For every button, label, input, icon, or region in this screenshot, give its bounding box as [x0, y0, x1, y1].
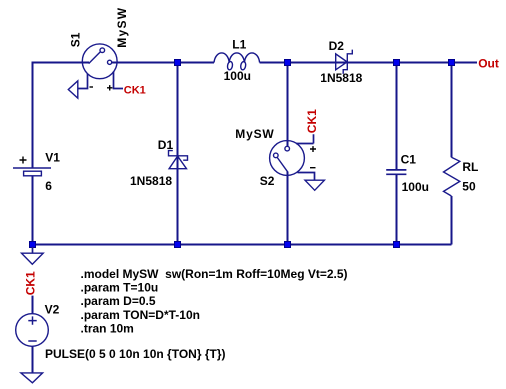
V1 plus mark: [20, 157, 27, 164]
S2 plus pin mark: [310, 146, 316, 152]
svg-text:PULSE(0 5 0 10n 10n {TON} {T}): PULSE(0 5 0 10n 10n {TON} {T}): [45, 347, 226, 361]
switch S2: [270, 134, 315, 180]
svg-text:1N5818: 1N5818: [320, 71, 362, 85]
wire: top rail from S1 right contact to D2 anode: [112, 62, 214, 64]
svg-text:L1: L1: [232, 38, 246, 52]
wire: RL branch top: [451, 63, 453, 158]
svg-text:V1: V1: [45, 151, 60, 165]
wire: V2 minus to ground: [32, 346, 34, 373]
wire: S2 pivot to bottom rail: [287, 172, 289, 245]
junction node bottom rail D1: [175, 242, 181, 248]
svg-text:.param T=10u: .param T=10u: [81, 281, 159, 295]
wire: C1 branch top: [396, 63, 398, 170]
ground at V2 minus: [21, 373, 43, 383]
svg-text:S2: S2: [260, 174, 275, 188]
voltage source V2: [16, 314, 49, 347]
svg-text:MySW: MySW: [115, 7, 129, 48]
svg-text:C1: C1: [401, 152, 417, 166]
capacitor C1: [386, 170, 406, 174]
svg-text:100u: 100u: [402, 180, 429, 194]
junction node RL top: [449, 60, 455, 66]
svg-text:6: 6: [45, 179, 52, 193]
wire: D1 branch: [177, 63, 179, 245]
wire: bottom ground rail: [33, 244, 452, 246]
diode D2: [336, 50, 353, 74]
ground at S1 minus control: [68, 81, 78, 98]
svg-text:CK1: CK1: [124, 85, 146, 97]
junction node D1 top: [175, 60, 181, 66]
wire: C1 bottom to bottom rail: [396, 175, 398, 245]
V2 plus mark: [28, 316, 36, 324]
S1 plus pin mark: [107, 85, 112, 90]
resistor RL: [444, 157, 460, 196]
wire: CK1 label to V2 plus: [32, 296, 34, 314]
switch S1: [78, 44, 123, 89]
svg-text:S1: S1: [69, 32, 83, 47]
svg-text:CK1: CK1: [305, 109, 319, 133]
junction node bottom rail V1: [30, 242, 36, 248]
ground at S2 minus control: [305, 180, 324, 190]
S2 minus pin mark: [310, 167, 316, 169]
svg-text:.model MySW sw(Ron=1m Roff=10: .model MySW sw(Ron=1m Roff=10Meg Vt=2.5): [81, 267, 348, 281]
svg-text:.tran 10m: .tran 10m: [81, 321, 134, 335]
svg-text:.param TON=D*T-10n: .param TON=D*T-10n: [81, 308, 200, 322]
V2 minus mark: [28, 340, 36, 342]
junction node C1 top: [394, 60, 400, 66]
svg-text:50: 50: [462, 180, 476, 194]
S1 minus pin mark: [90, 86, 94, 88]
svg-text:D1: D1: [158, 138, 174, 152]
wire: left rail top + top rail to S1 pivot: [33, 63, 90, 168]
svg-text:MySW: MySW: [235, 127, 274, 141]
diode D1: [169, 151, 188, 169]
battery V1: [13, 168, 51, 176]
ground at bottom rail: [22, 247, 44, 264]
junction node bottom rail S2: [285, 242, 291, 248]
svg-text:.param D=0.5: .param D=0.5: [81, 294, 156, 308]
svg-text:Out: Out: [478, 57, 499, 71]
junction node bottom rail C1: [394, 242, 400, 248]
svg-text:D2: D2: [329, 39, 345, 53]
svg-text:RL: RL: [462, 160, 478, 174]
svg-text:100u: 100u: [224, 69, 251, 83]
wire: top rail L1 through D2 to Out: [260, 62, 477, 64]
wire: RL bottom to bottom rail: [451, 196, 453, 245]
inductor L1: [214, 53, 260, 70]
svg-text:CK1: CK1: [23, 271, 37, 295]
svg-text:V2: V2: [45, 303, 60, 317]
wire: V1 minus to bottom rail: [32, 176, 34, 245]
wire: S2 branch top: [287, 63, 289, 147]
junction node S2 top: [285, 60, 291, 66]
svg-text:1N5818: 1N5818: [130, 174, 172, 188]
